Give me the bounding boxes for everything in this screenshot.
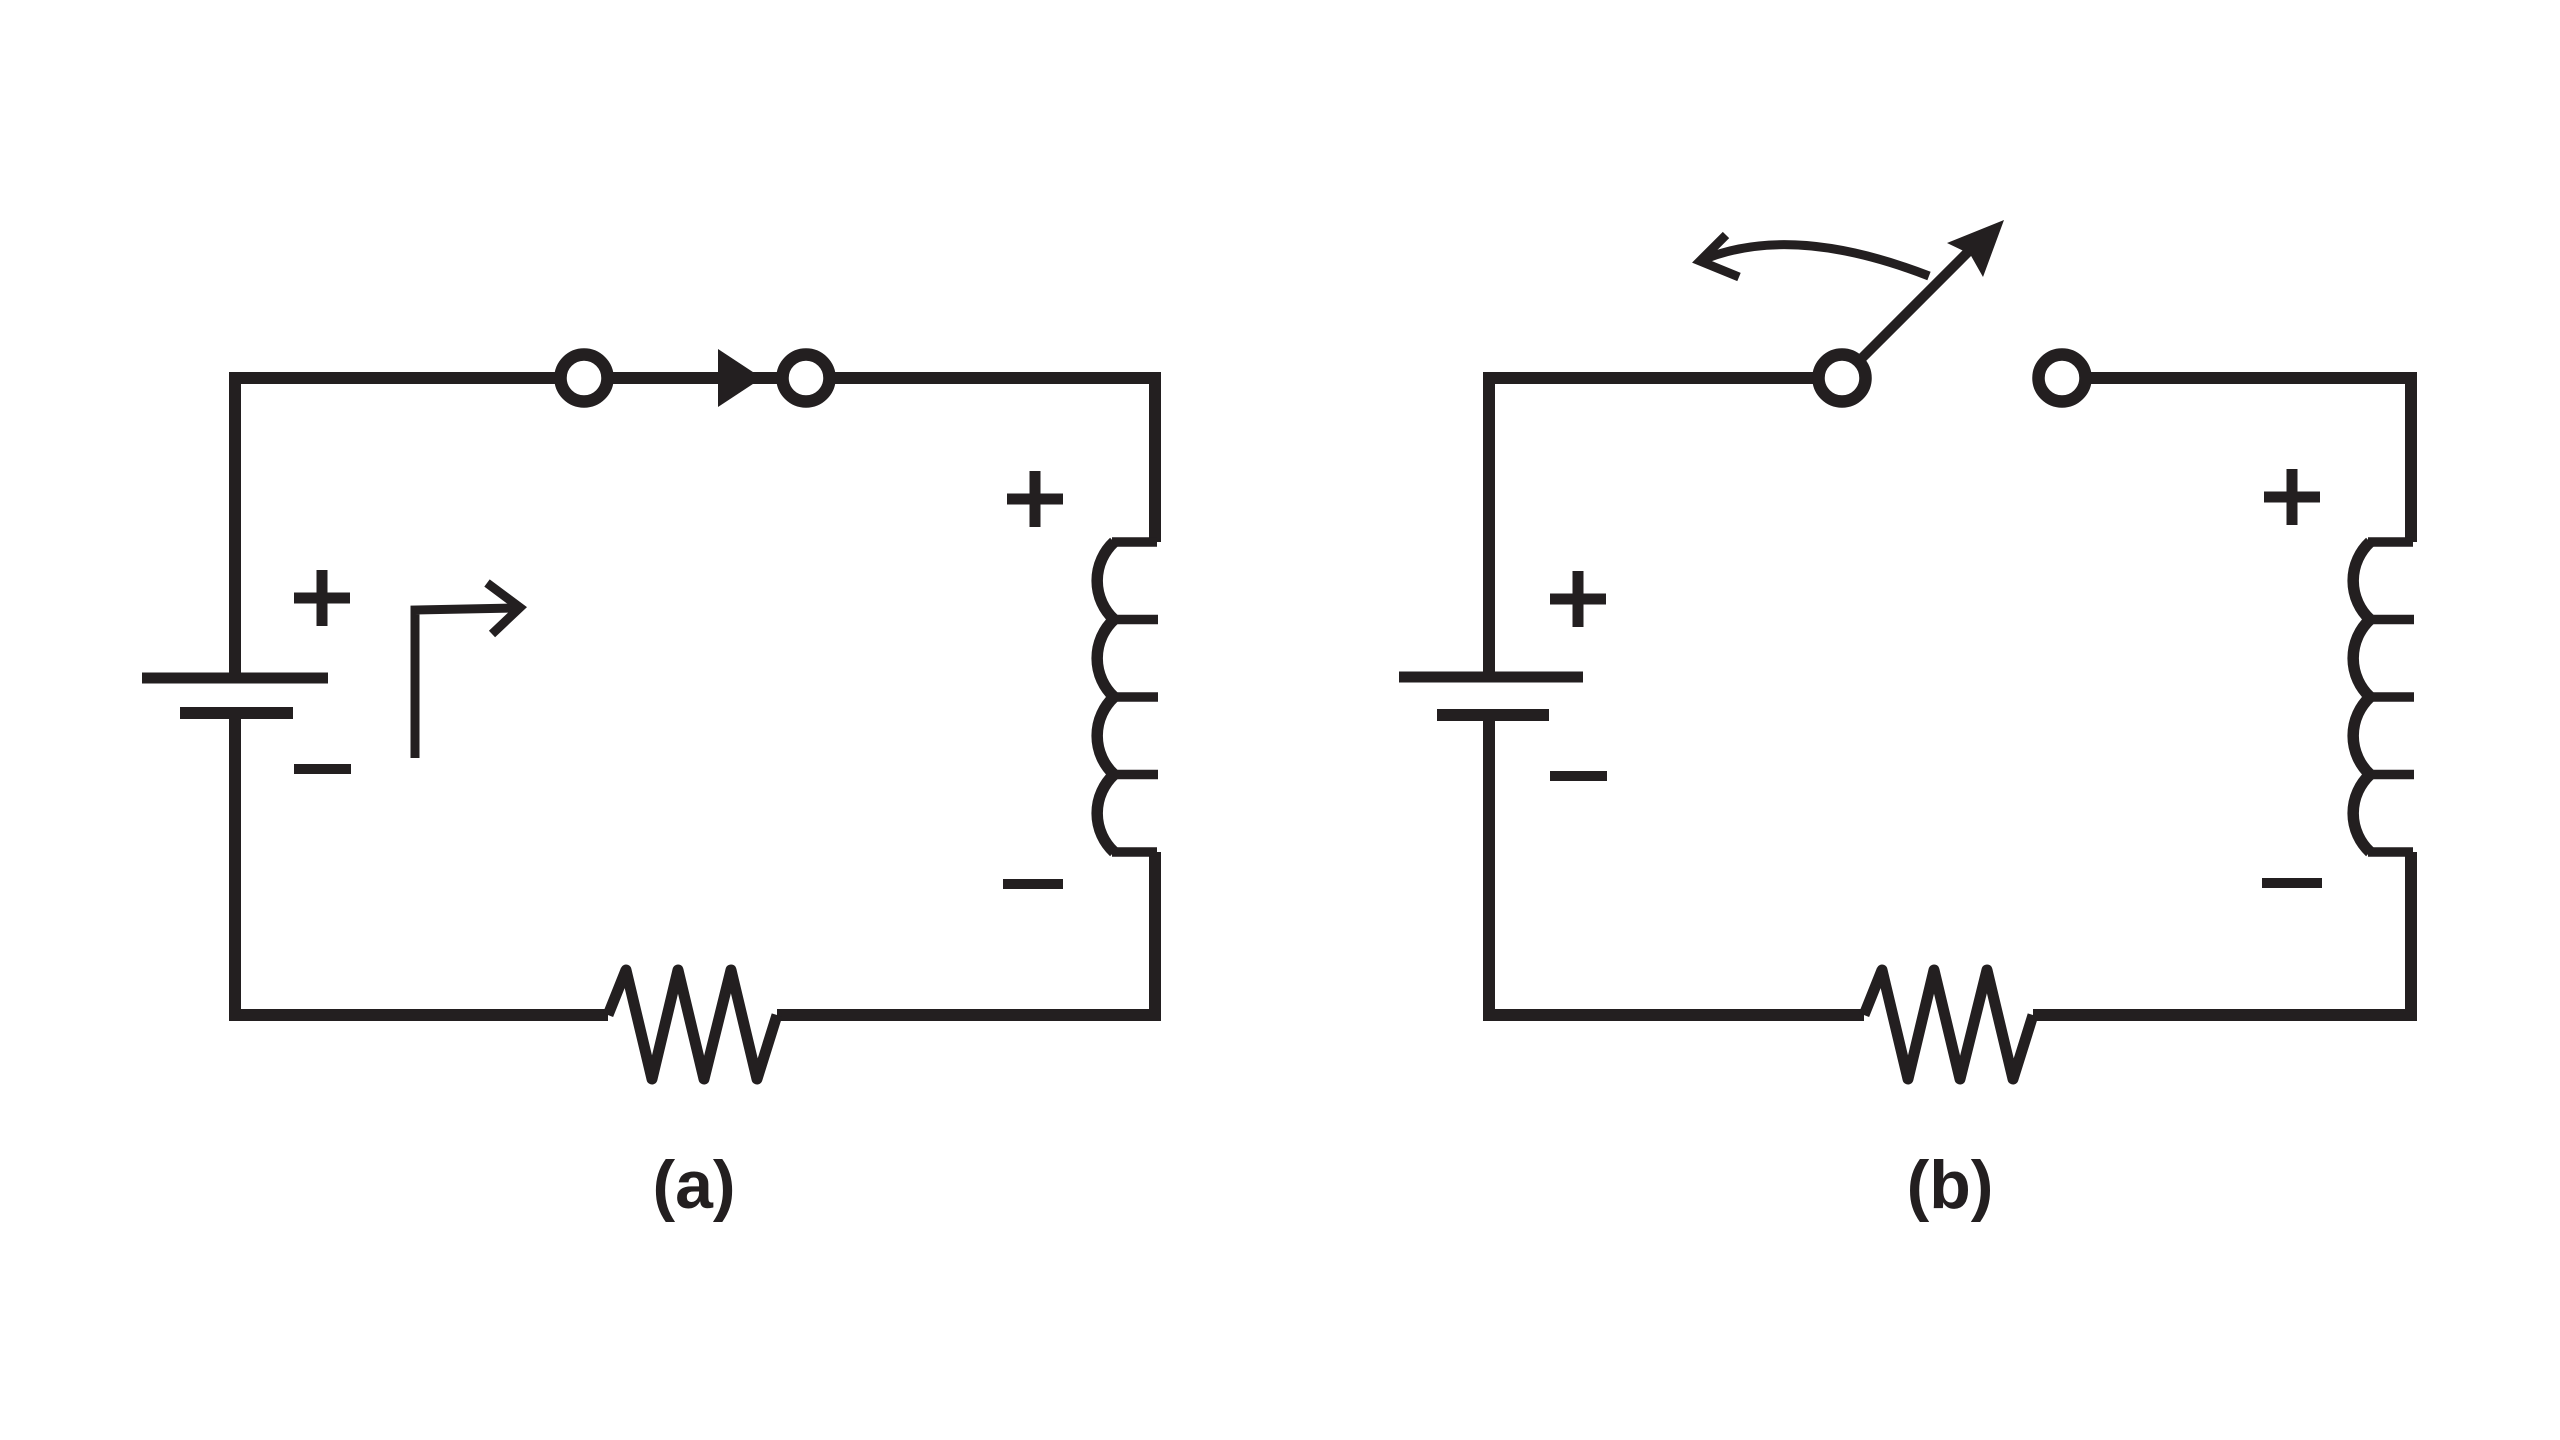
- wire right bottom (a): [1149, 852, 1161, 1021]
- wire bottom left (a): [229, 1009, 608, 1021]
- svg-text:(b): (b): [1907, 1147, 1994, 1223]
- resistor R zigzag (a): [608, 970, 777, 1079]
- wire top (a): [235, 372, 1155, 384]
- wire left top (b): [1483, 372, 1495, 677]
- switch terminal circle left (a): [561, 355, 608, 402]
- inductor L coil (a): [1097, 542, 1114, 852]
- battery V1 long plate (a): [142, 673, 328, 684]
- wire right bottom (b): [2405, 852, 2417, 1021]
- inductor L coil ticks (b): [2368, 542, 2414, 852]
- wire right top (b): [2405, 372, 2417, 542]
- resistor R zigzag (b): [1864, 970, 2033, 1079]
- battery V1 short plate (a): [180, 707, 293, 719]
- wire left bottom (a): [229, 713, 241, 1015]
- inductor L minus label (b): [2262, 878, 2322, 888]
- current direction arrow i (a): [415, 583, 520, 758]
- wire top left (b): [1489, 372, 1842, 384]
- battery V1 minus label (a): [294, 764, 351, 774]
- battery V2 short plate (b): [1437, 709, 1549, 721]
- inductor L plus label (b): [2264, 469, 2320, 525]
- inductor L coil (b): [2353, 542, 2370, 852]
- battery V2 long plate (b): [1399, 672, 1583, 683]
- switch terminal circle left (b): [1819, 355, 1866, 402]
- wire left top (a): [229, 372, 241, 678]
- wire left bottom (b): [1483, 715, 1495, 1015]
- switch S opening motion curved arrow (b): [1700, 245, 1929, 276]
- svg-text:(a): (a): [652, 1147, 735, 1223]
- inductor L coil ticks (a): [1112, 542, 1158, 852]
- battery V2 minus label (b): [1550, 771, 1607, 781]
- switch S arm arrowhead (b): [1947, 220, 2004, 277]
- switch S curved arrow head (b): [1700, 235, 1739, 277]
- battery V2 plus label (b): [1550, 571, 1606, 627]
- inductor L plus label (a): [1007, 471, 1063, 527]
- wire bottom right (a): [777, 1009, 1161, 1021]
- switch S closing arrowhead (a): [718, 349, 762, 407]
- switch terminal circle right (a): [783, 355, 830, 402]
- inductor L minus label (a): [1003, 879, 1063, 889]
- wire right top (a): [1149, 372, 1161, 542]
- switch S opening arm (b): [1858, 243, 1977, 362]
- wire top right (b): [2062, 372, 2411, 384]
- wire bottom left (b): [1483, 1009, 1864, 1021]
- battery V1 plus label (a): [294, 570, 350, 626]
- switch terminal circle right (b): [2039, 355, 2086, 402]
- wire bottom right (b): [2033, 1009, 2417, 1021]
